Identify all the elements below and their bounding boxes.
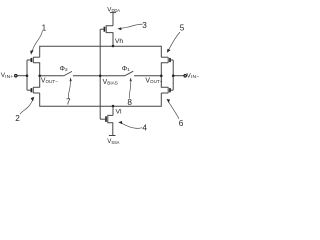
- svg-text:6: 6: [179, 119, 184, 128]
- svg-text:Vh: Vh: [115, 38, 124, 45]
- wire right gate line: [172, 60, 174, 90]
- svg-text:1: 1: [42, 24, 47, 33]
- leader for label 4: [122, 123, 142, 128]
- svg-text:VDDA: VDDA: [107, 6, 120, 13]
- arrowhead 8: [130, 78, 132, 82]
- transistor M5 PMOS right top: [161, 57, 173, 76]
- leader for label 5: [169, 32, 180, 50]
- wire middle line VOUT- to switch 7: [40, 75, 64, 77]
- node dot VOUT+: [160, 75, 163, 78]
- node dot VBIAS: [99, 75, 102, 78]
- transistor M4 NMOS bottom center: [100, 106, 115, 136]
- arrowhead 1: [30, 50, 33, 55]
- node dot VOUT-: [38, 75, 41, 78]
- node dot Vl: [112, 105, 115, 108]
- leader for label 7: [68, 82, 70, 99]
- wire VIN+ input: [17, 75, 27, 77]
- svg-text:VOUT+: VOUT+: [145, 77, 162, 84]
- svg-text:Vl: Vl: [116, 109, 123, 116]
- arrowhead 6: [167, 99, 171, 103]
- svg-text:7: 7: [66, 98, 71, 107]
- svg-text:VSSA: VSSA: [107, 138, 119, 145]
- svg-text:VBIAS: VBIAS: [103, 79, 118, 86]
- wire VIN- input: [173, 75, 184, 77]
- svg-text:5: 5: [180, 23, 185, 32]
- node dot Vh: [112, 45, 115, 48]
- node VIN+ terminal circle: [15, 75, 17, 77]
- node dot VIN- gate: [172, 74, 175, 77]
- wire left gate line: [26, 60, 28, 90]
- arrowhead 3: [118, 27, 122, 30]
- arrowhead 2: [31, 97, 35, 101]
- svg-text:8: 8: [127, 98, 132, 107]
- wire VBIAS vertical line: [99, 29, 101, 119]
- leader for label 2: [20, 100, 33, 115]
- svg-text:4: 4: [142, 123, 147, 132]
- switch 8 blade (phi1): [125, 71, 134, 76]
- leader for label 3: [122, 24, 143, 28]
- arrowhead 7: [70, 77, 72, 81]
- leader for label 6: [169, 102, 180, 119]
- node dot VIN+ gate: [26, 74, 29, 77]
- wire top rail (node Vh): [40, 46, 162, 57]
- wire bottom rail (node Vl): [40, 93, 162, 106]
- transistor M3 PMOS top center: [100, 13, 116, 46]
- wire switch 7 to VBIAS node: [73, 75, 125, 77]
- arrowhead 5: [167, 49, 171, 53]
- leader for label 1: [32, 31, 42, 51]
- leader for label 8: [129, 82, 131, 99]
- transistor M6 NMOS right bottom: [161, 76, 173, 93]
- svg-text:VOUT−: VOUT−: [41, 78, 58, 85]
- arrowhead 4: [118, 121, 122, 124]
- wire switch 8 to VOUT+: [134, 75, 161, 77]
- svg-text:2: 2: [15, 114, 20, 123]
- transistor M1 PMOS left top: [27, 57, 40, 76]
- node VIN- terminal circle: [184, 75, 186, 77]
- switch 7 blade (phi2): [63, 71, 72, 76]
- transistor M2 NMOS left bottom: [27, 76, 40, 93]
- svg-text:3: 3: [142, 21, 147, 30]
